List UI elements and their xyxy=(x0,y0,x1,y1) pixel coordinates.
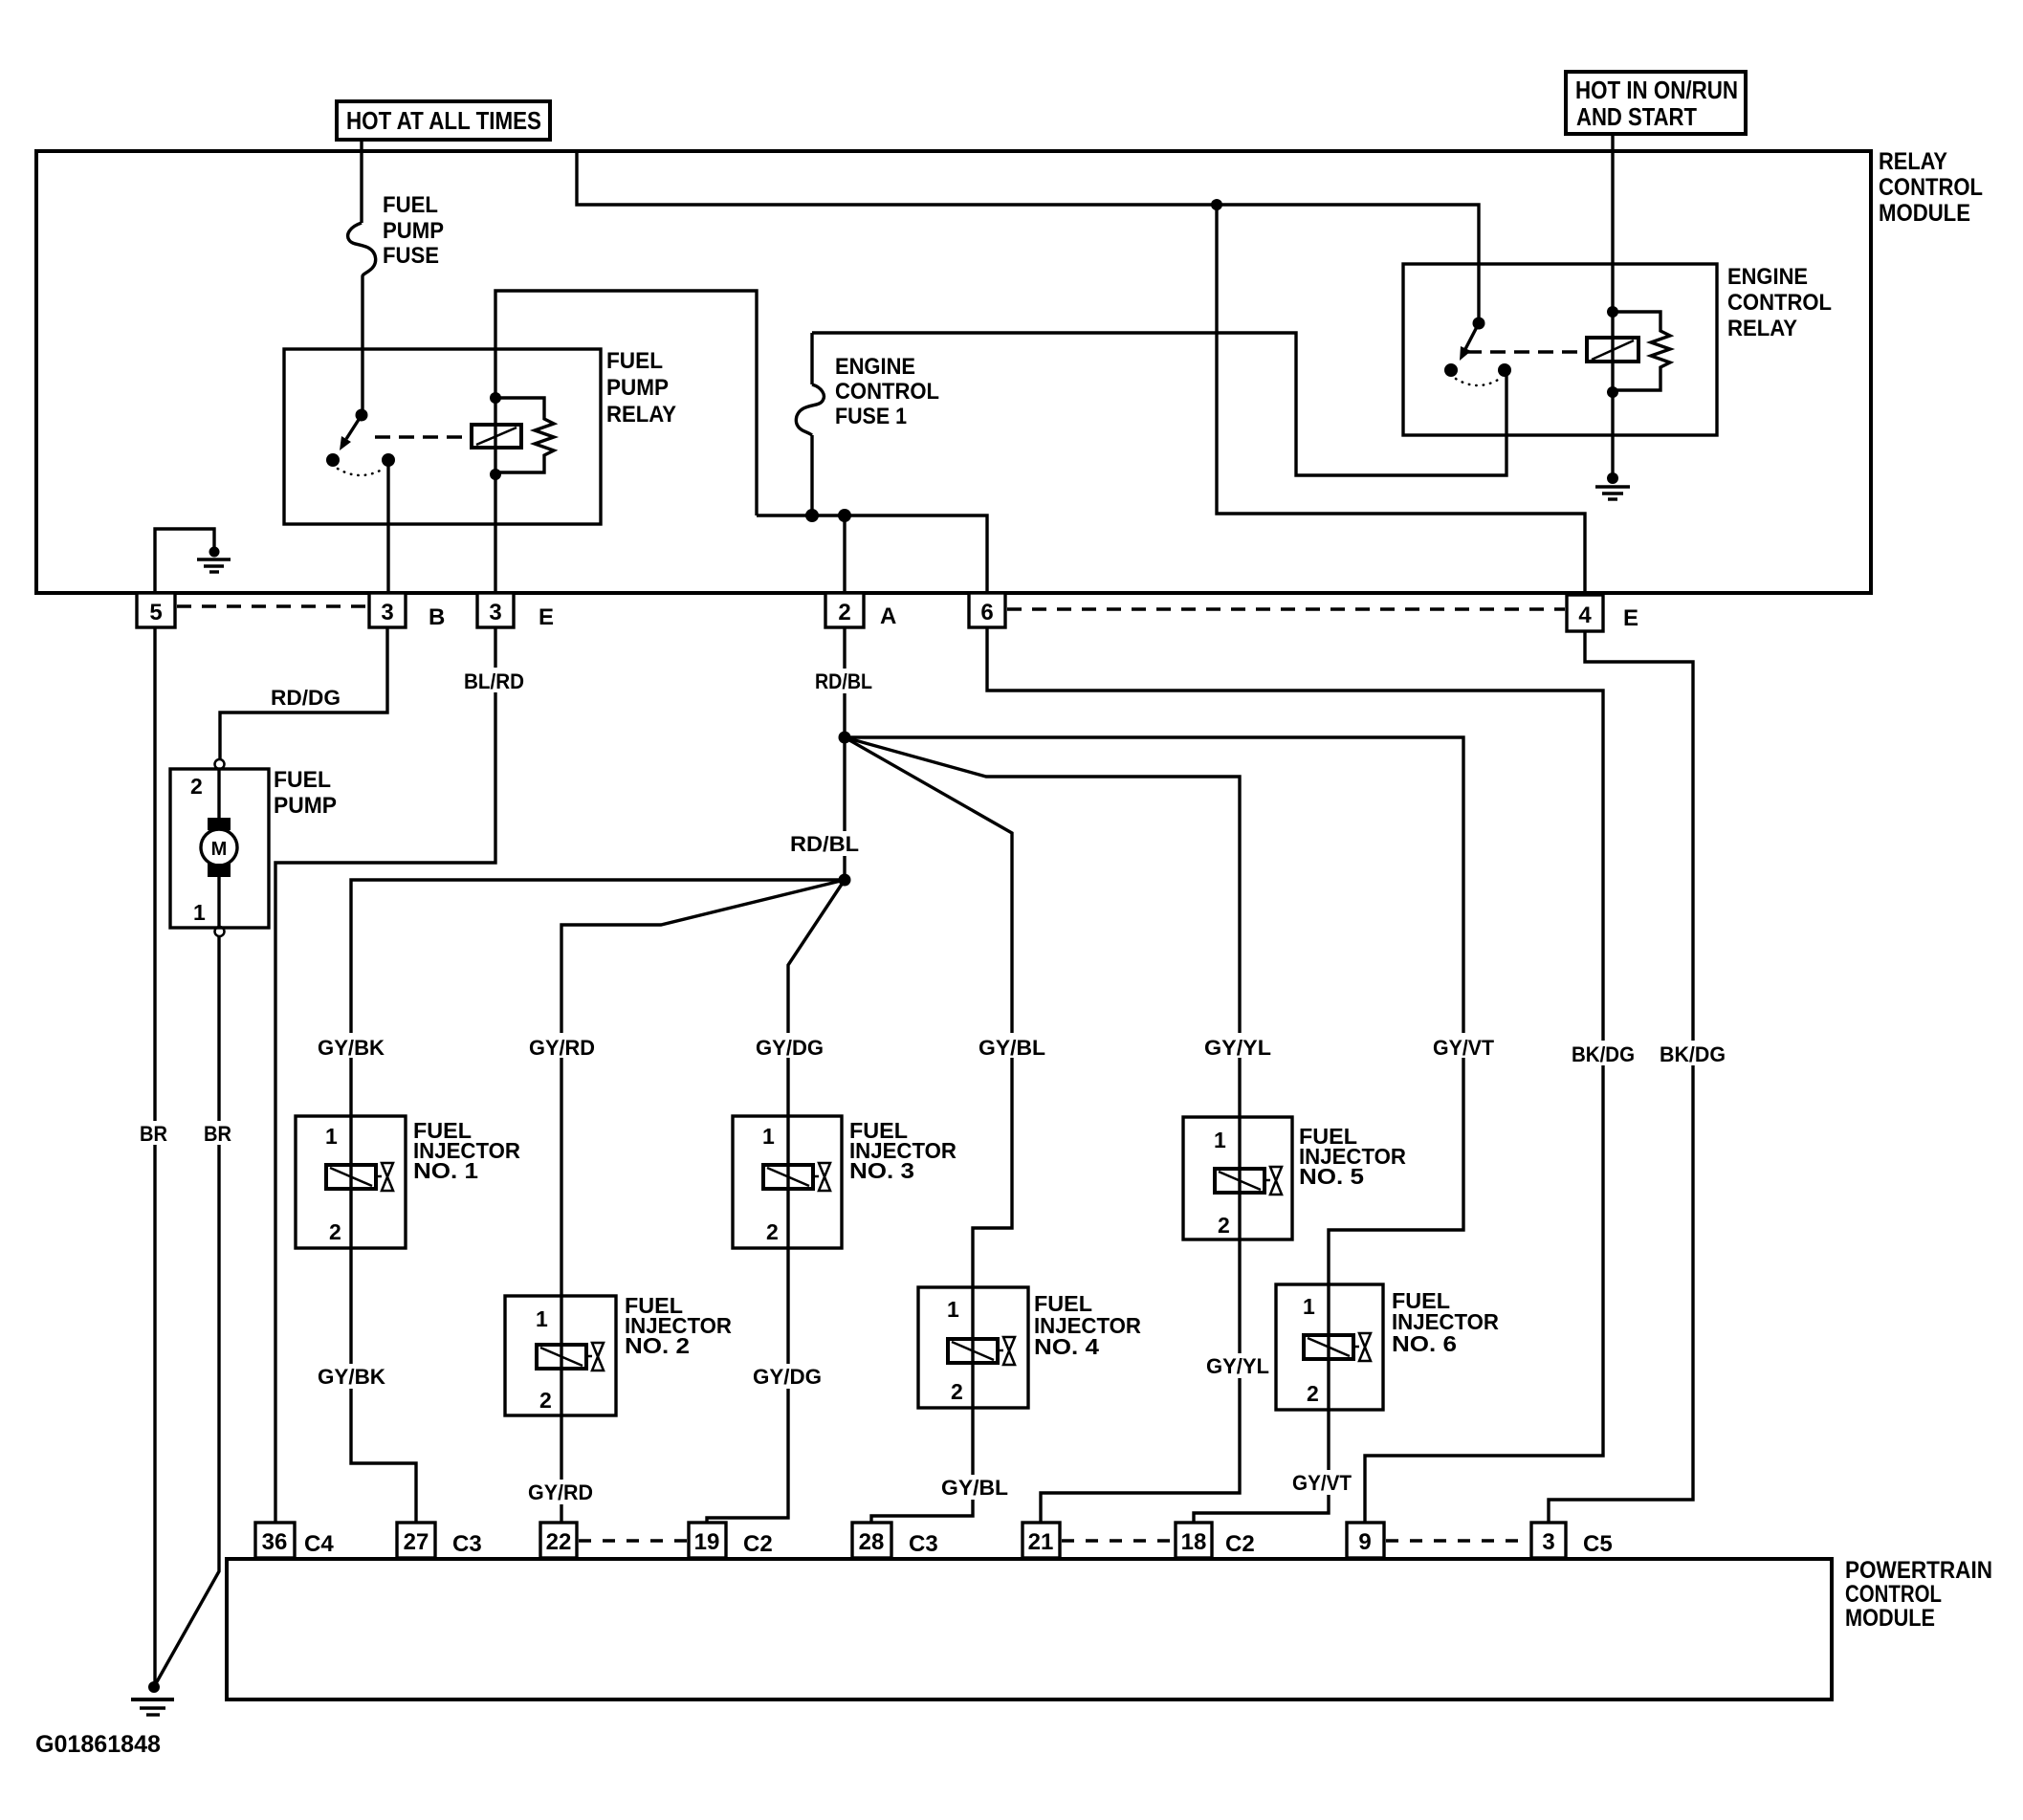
wire BR from fuel pump down to chassis ground xyxy=(155,936,219,1685)
wire label GY/RD upper xyxy=(526,1033,600,1060)
wire from lower splice to fuel injector no 2 column GY/RD xyxy=(561,880,845,1296)
engine control fuse 1 xyxy=(796,333,824,515)
fuel pump pin 2 xyxy=(190,774,203,799)
svg-text:CONTROL: CONTROL xyxy=(1879,174,1983,201)
wire BK/DG from connector 4 E to PCM pin 3 xyxy=(1549,631,1693,1523)
pin letter A xyxy=(880,603,896,629)
fuel injector no 2 xyxy=(505,1296,616,1415)
fuel pump relay coil actuating dashed link xyxy=(375,435,469,438)
fuel injector no 6 pin 1 xyxy=(1303,1294,1315,1319)
svg-text:2: 2 xyxy=(1307,1381,1319,1406)
connector pin 3 B xyxy=(369,593,406,627)
fuel injector no 1 pin 2 xyxy=(329,1219,341,1244)
connector pin 5 xyxy=(137,593,175,627)
fuel injector no 3 pin 2 xyxy=(766,1219,779,1244)
svg-text:AND START: AND START xyxy=(1576,102,1697,131)
svg-text:GY/RD: GY/RD xyxy=(528,1480,593,1504)
power source label HOT IN ON/RUN AND START xyxy=(1566,72,1746,134)
svg-text:GY/RD: GY/RD xyxy=(529,1036,595,1060)
engine control fuse 1 label xyxy=(835,354,939,429)
fuel injector no 2 pin 1 xyxy=(536,1306,548,1331)
svg-text:ENGINE: ENGINE xyxy=(835,354,915,380)
wire label GY/BL upper xyxy=(976,1033,1049,1060)
svg-text:2: 2 xyxy=(766,1219,779,1244)
connector pin 3 E xyxy=(477,593,514,627)
svg-text:GY/VT: GY/VT xyxy=(1292,1471,1352,1495)
wire GY/BL from injector 4 to PCM pin 28 xyxy=(871,1408,973,1523)
fuel pump fuse xyxy=(348,223,376,415)
svg-text:2: 2 xyxy=(838,600,850,625)
svg-text:6: 6 xyxy=(980,600,993,625)
svg-text:2: 2 xyxy=(1218,1213,1230,1238)
pin letter B xyxy=(429,604,445,630)
wire label GY/VT upper xyxy=(1430,1033,1498,1060)
svg-text:5: 5 xyxy=(149,600,162,625)
fuel injector no 1 pin 1 xyxy=(325,1124,338,1149)
powertrain control module box xyxy=(227,1559,1832,1699)
pin letter E xyxy=(539,604,554,630)
svg-text:PUMP: PUMP xyxy=(383,218,444,244)
wire branch from module top to horizontal rail xyxy=(577,151,1479,323)
svg-text:C2: C2 xyxy=(1225,1531,1255,1557)
svg-text:9: 9 xyxy=(1358,1529,1371,1555)
fuel injector no 4 xyxy=(918,1287,1028,1408)
svg-text:CONTROL: CONTROL xyxy=(1727,290,1832,316)
wire label RD/BL xyxy=(813,669,874,693)
connector pin 6 xyxy=(969,593,1005,627)
engine control relay label xyxy=(1727,264,1832,341)
fuel injector no 3 label xyxy=(849,1118,957,1183)
pin letter E at connector 4 xyxy=(1623,605,1638,631)
svg-text:4: 4 xyxy=(1578,603,1592,628)
fuel pump relay box xyxy=(284,349,601,524)
dashed link connector 5 to connector 3 xyxy=(177,604,369,607)
svg-text:B: B xyxy=(429,604,445,630)
fuel injector no 3 pin 1 xyxy=(762,1124,775,1149)
svg-text:19: 19 xyxy=(694,1529,720,1555)
wire RD/DG from connector 3 B to fuel pump xyxy=(220,627,387,759)
fuel injector no 5 label xyxy=(1299,1124,1406,1189)
wire GY/YL from injector 5 to PCM pin 21 xyxy=(1041,1239,1240,1523)
wire from upper splice to fuel injector no 6 column GY/VT xyxy=(845,737,1463,1284)
svg-text:GY/DG: GY/DG xyxy=(756,1036,824,1060)
fuel pump relay coil xyxy=(472,392,521,480)
svg-text:3: 3 xyxy=(1542,1529,1554,1555)
svg-text:NO. 2: NO. 2 xyxy=(625,1333,690,1358)
svg-text:GY/BK: GY/BK xyxy=(318,1365,385,1389)
wire label GY/YL upper xyxy=(1201,1033,1275,1060)
svg-text:C5: C5 xyxy=(1583,1531,1613,1557)
svg-text:GY/BL: GY/BL xyxy=(941,1476,1008,1500)
svg-text:28: 28 xyxy=(859,1529,885,1555)
engine control relay coil suppression resistor xyxy=(1613,312,1670,390)
wire label GY/BL lower xyxy=(938,1475,1012,1500)
svg-text:18: 18 xyxy=(1181,1529,1207,1555)
svg-text:1: 1 xyxy=(325,1124,338,1149)
svg-text:2: 2 xyxy=(539,1388,552,1413)
wire from fuel pump relay coil top to engine control fuse node xyxy=(495,291,757,515)
svg-text:GY/YL: GY/YL xyxy=(1206,1354,1269,1378)
chassis ground at bottom left xyxy=(131,1681,174,1715)
wire label BR left xyxy=(136,1121,171,1146)
svg-text:BK/DG: BK/DG xyxy=(1660,1042,1726,1066)
splice junction lower RD/BL xyxy=(839,874,851,887)
wire node to connectors 2 and 6 xyxy=(757,515,987,593)
svg-text:1: 1 xyxy=(1214,1128,1226,1152)
connector pin 2 A xyxy=(825,593,864,627)
wire BK/DG from connector 6 to PCM pin 9 xyxy=(987,627,1603,1523)
dashed link PCM pin 22 to pin 19 xyxy=(579,1539,687,1542)
wire label GY/DG upper xyxy=(753,1033,826,1060)
relay control module label xyxy=(1879,148,1983,227)
pin label C3 xyxy=(452,1531,482,1557)
svg-text:POWERTRAIN: POWERTRAIN xyxy=(1845,1557,1992,1584)
powertrain control module label xyxy=(1845,1557,1992,1632)
PCM connector pin 28 C3 xyxy=(852,1523,891,1558)
wire GY/BK from injector 1 to PCM pin 27 xyxy=(351,1248,416,1523)
svg-text:NO. 4: NO. 4 xyxy=(1034,1334,1099,1359)
svg-text:C3: C3 xyxy=(452,1531,482,1557)
dashed link PCM pin 21 to pin 18 xyxy=(1062,1539,1174,1542)
svg-text:CONTROL: CONTROL xyxy=(1845,1581,1942,1608)
power source label HOT AT ALL TIMES xyxy=(337,101,550,140)
fuel injector no 6 pin 2 xyxy=(1307,1381,1319,1406)
fuel injector no 4 pin 1 xyxy=(947,1297,959,1322)
PCM connector pin 36 C4 xyxy=(255,1523,295,1558)
wire BL/RD from connector 3 E to PCM pin 36 xyxy=(275,627,495,1523)
svg-text:FUEL: FUEL xyxy=(383,192,438,218)
fuel pump relay coil suppression resistor xyxy=(495,398,554,472)
engine control relay coil actuating dashed link xyxy=(1466,350,1583,353)
fuel injector no 5 pin 1 xyxy=(1214,1128,1226,1152)
svg-text:BK/DG: BK/DG xyxy=(1572,1042,1635,1066)
wire RD/BL from connector 2 A to splice xyxy=(843,627,846,737)
pin label C5 xyxy=(1583,1531,1613,1557)
svg-text:BL/RD: BL/RD xyxy=(464,669,524,693)
svg-text:NO. 6: NO. 6 xyxy=(1392,1331,1457,1356)
svg-text:ENGINE: ENGINE xyxy=(1727,264,1808,290)
svg-text:A: A xyxy=(880,603,896,629)
wire GY/VT from injector 6 to PCM pin 18 xyxy=(1194,1410,1329,1523)
wire BR from connector 5 down to chassis ground xyxy=(153,627,156,1687)
svg-text:BR: BR xyxy=(140,1122,167,1146)
PCM connector pin 27 C3 xyxy=(397,1523,435,1558)
svg-text:RD/DG: RD/DG xyxy=(271,686,341,710)
wire label BL/RD xyxy=(462,668,526,693)
wire GY/RD from injector 2 to PCM pin 22 xyxy=(560,1415,562,1523)
fuel injector no 1 xyxy=(296,1116,406,1248)
svg-text:C3: C3 xyxy=(909,1531,938,1557)
svg-text:2: 2 xyxy=(190,774,203,799)
PCM connector pin 22 xyxy=(540,1523,577,1558)
pin label C2 second xyxy=(1225,1531,1255,1557)
ground inside relay control module xyxy=(197,547,231,573)
fuel pump fuse label xyxy=(383,192,444,269)
fuel injector no 2 label xyxy=(625,1293,732,1358)
svg-text:3: 3 xyxy=(489,600,501,625)
svg-text:2: 2 xyxy=(951,1379,963,1404)
wire GY/DG from injector 3 to PCM pin 19 xyxy=(707,1248,788,1523)
fuel injector no 4 pin 2 xyxy=(951,1379,963,1404)
svg-text:FUSE: FUSE xyxy=(383,243,439,269)
wire from HOT AT ALL TIMES down to fuel pump fuse xyxy=(360,140,363,223)
engine control relay switch xyxy=(1444,318,1511,386)
dashed link connector 6 to connector 4 xyxy=(1007,607,1565,610)
svg-text:HOT IN ON/RUN: HOT IN ON/RUN xyxy=(1575,76,1738,104)
wire label GY/VT lower xyxy=(1289,1470,1355,1495)
svg-text:G01861848: G01861848 xyxy=(35,1731,161,1758)
svg-text:GY/BL: GY/BL xyxy=(979,1036,1045,1060)
fuel injector no 5 pin 2 xyxy=(1218,1213,1230,1238)
wire RD/BL between splices xyxy=(843,737,846,880)
svg-text:NO. 1: NO. 1 xyxy=(413,1158,478,1183)
wire from rail junction down and over to connector 4 xyxy=(1217,205,1585,597)
wire label GY/BK lower xyxy=(315,1364,389,1389)
svg-text:MODULE: MODULE xyxy=(1879,200,1970,227)
svg-text:MODULE: MODULE xyxy=(1845,1605,1935,1632)
PCM connector pin 3 C5 xyxy=(1531,1523,1566,1558)
svg-text:HOT AT ALL TIMES: HOT AT ALL TIMES xyxy=(346,106,541,135)
svg-text:21: 21 xyxy=(1028,1529,1054,1555)
ground for engine control relay xyxy=(1595,472,1630,499)
PCM connector pin 19 C2 xyxy=(689,1523,726,1558)
fuel pump relay label xyxy=(606,348,676,428)
wire from upper splice to fuel injector no 4 column GY/BL xyxy=(845,737,1012,1287)
fuel pump pin 1 xyxy=(193,900,206,925)
wire label BK/DG first xyxy=(1569,1041,1638,1066)
wire label RD/DG xyxy=(269,684,342,710)
wire from HOT IN ON/RUN down to engine control relay coil xyxy=(1611,134,1614,312)
svg-text:RELAY: RELAY xyxy=(1727,316,1797,341)
fuel injector no 3 xyxy=(733,1116,842,1248)
svg-text:1: 1 xyxy=(1303,1294,1315,1319)
svg-text:CONTROL: CONTROL xyxy=(835,379,939,405)
fuel injector no 5 xyxy=(1183,1117,1292,1239)
svg-text:1: 1 xyxy=(947,1297,959,1322)
svg-text:1: 1 xyxy=(193,900,206,925)
svg-text:22: 22 xyxy=(546,1529,572,1555)
fuel injector no 6 label xyxy=(1392,1288,1499,1356)
wire label GY/YL lower xyxy=(1203,1353,1273,1378)
svg-text:FUSE 1: FUSE 1 xyxy=(835,404,907,429)
fuel pump relay switch xyxy=(326,409,395,476)
fuel injector no 1 label xyxy=(413,1118,520,1183)
svg-text:27: 27 xyxy=(404,1529,429,1555)
svg-text:PUMP: PUMP xyxy=(606,375,669,401)
wire from engine control relay coil to ground xyxy=(1611,392,1614,478)
svg-text:M: M xyxy=(211,839,228,860)
svg-text:RD/BL: RD/BL xyxy=(815,669,872,693)
svg-text:2: 2 xyxy=(329,1219,341,1244)
fuel injector no 4 label xyxy=(1034,1291,1141,1359)
dashed link PCM pin 9 to pin 3 xyxy=(1386,1539,1529,1542)
svg-text:BR: BR xyxy=(204,1122,231,1146)
svg-text:NO. 3: NO. 3 xyxy=(849,1158,914,1183)
wire label GY/BK upper xyxy=(315,1033,388,1060)
svg-text:1: 1 xyxy=(762,1124,775,1149)
svg-text:FUEL: FUEL xyxy=(274,767,331,793)
node dots at engine control fuse output xyxy=(805,509,851,522)
wire from module bottom left to internal ground xyxy=(155,529,214,593)
wire label RD/BL lower xyxy=(788,831,861,856)
wire label BK/DG second xyxy=(1657,1041,1729,1066)
svg-text:1: 1 xyxy=(536,1306,548,1331)
svg-text:C2: C2 xyxy=(743,1531,773,1557)
svg-text:RELAY: RELAY xyxy=(606,402,676,428)
svg-text:GY/VT: GY/VT xyxy=(1433,1036,1495,1060)
pin label C3 second xyxy=(909,1531,938,1557)
wire from engine control fuse top to engine control relay switch contact xyxy=(812,333,1506,475)
wire label GY/RD lower xyxy=(525,1480,597,1504)
wire label BR right xyxy=(200,1121,235,1146)
fuel injector no 6 xyxy=(1276,1284,1383,1410)
svg-text:E: E xyxy=(1623,605,1638,631)
svg-text:FUEL: FUEL xyxy=(606,348,663,374)
pin label C4 xyxy=(304,1531,334,1557)
svg-text:PUMP: PUMP xyxy=(274,793,337,819)
wire label GY/DG lower xyxy=(750,1364,825,1389)
wire from fuel pump relay coil bottom to connector 3 E xyxy=(494,474,496,593)
svg-text:NO. 5: NO. 5 xyxy=(1299,1164,1364,1189)
connector pin 4 E xyxy=(1567,595,1603,631)
svg-text:RELAY: RELAY xyxy=(1879,148,1947,175)
svg-text:C4: C4 xyxy=(304,1531,334,1557)
PCM connector pin 21 xyxy=(1022,1523,1060,1558)
PCM connector pin 18 C2 xyxy=(1176,1523,1212,1558)
pin label C2 xyxy=(743,1531,773,1557)
fuel pump FP1 xyxy=(170,759,269,936)
engine control relay box xyxy=(1403,264,1717,435)
PCM connector pin 9 xyxy=(1347,1523,1384,1558)
svg-text:GY/DG: GY/DG xyxy=(753,1365,822,1389)
wire from fuel pump relay switch output to connector 3 B xyxy=(386,460,389,593)
svg-text:3: 3 xyxy=(381,600,393,625)
svg-text:E: E xyxy=(539,604,554,630)
svg-text:RD/BL: RD/BL xyxy=(790,832,859,856)
engine control relay coil xyxy=(1587,306,1638,398)
wire from upper splice to fuel injector no 5 column GY/YL xyxy=(845,737,1240,1117)
junction on rail feeding engine control fuse branch xyxy=(1211,199,1222,210)
relay control module box xyxy=(36,151,1871,593)
fuel injector no 2 pin 2 xyxy=(539,1388,552,1413)
wire from lower splice to fuel injector no 1 column GY/BK xyxy=(351,880,845,1116)
figure id G01861848 xyxy=(35,1731,161,1758)
svg-text:36: 36 xyxy=(262,1529,288,1555)
svg-text:GY/BK: GY/BK xyxy=(318,1036,385,1060)
svg-text:GY/YL: GY/YL xyxy=(1204,1036,1271,1060)
splice junction upper RD/BL xyxy=(839,732,851,744)
fuel pump label xyxy=(274,767,337,819)
wire from lower splice to fuel injector no 3 column GY/DG xyxy=(788,880,845,1116)
